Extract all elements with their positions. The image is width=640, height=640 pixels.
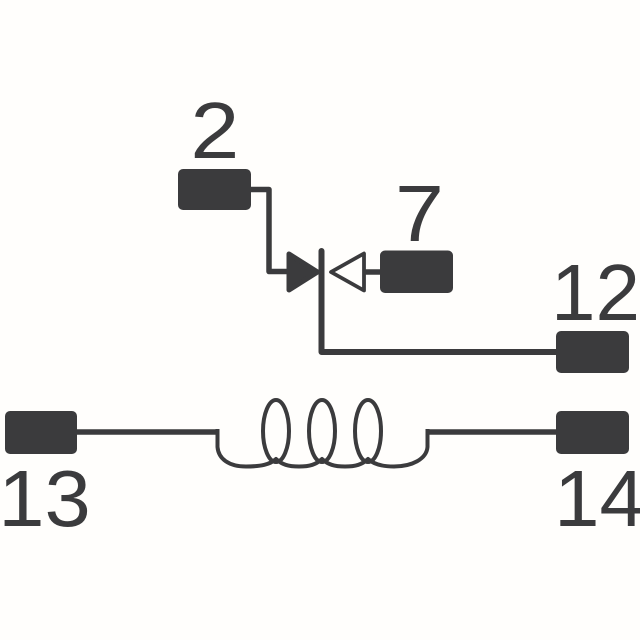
- terminal pad 14: [556, 411, 629, 454]
- wire coil to pad 14: [426, 429, 557, 435]
- diode D1 (filled triangle): [289, 254, 318, 290]
- wire pad2 to diode D1: [251, 190, 289, 272]
- coil L1 bottom wave: [218, 429, 428, 467]
- svg-text:7: 7: [395, 169, 444, 258]
- terminal pad 13: [5, 411, 77, 454]
- wire pad13 to coil: [77, 429, 219, 435]
- svg-text:2: 2: [190, 86, 239, 175]
- svg-text:14: 14: [554, 455, 640, 544]
- coil L1 loop 1: [263, 400, 289, 462]
- coil L1 loop 3: [355, 400, 381, 462]
- terminal pad 2: [178, 169, 251, 210]
- open triangle (photo detector): [331, 254, 364, 291]
- terminal pad 7: [380, 251, 453, 294]
- coil L1 loop 2: [309, 400, 335, 462]
- svg-text:13: 13: [0, 454, 91, 543]
- svg-text:12: 12: [551, 248, 640, 337]
- diode cathode bar / wire down to pad 12: [322, 251, 557, 352]
- wire open triangle to pad 7: [364, 269, 382, 275]
- terminal pad 12: [556, 331, 629, 373]
